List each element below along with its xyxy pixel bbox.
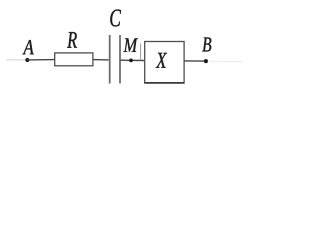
node M label	[123, 38, 137, 51]
box X	[145, 42, 184, 83]
wire from node A to resistor R	[27, 59, 54, 61]
node B label	[202, 38, 211, 52]
wire faint lead-out right of node B	[209, 60, 242, 62]
resistor R	[55, 53, 93, 66]
wire faint lead-in left of node A	[6, 59, 26, 61]
node M	[129, 59, 133, 63]
node A	[25, 58, 29, 62]
wire from box X to node B	[184, 60, 204, 62]
wire from capacitor C to box X	[120, 59, 144, 61]
box X label	[156, 53, 167, 68]
node A label	[23, 40, 34, 54]
resistor R label	[67, 32, 77, 48]
capacitor C right plate	[119, 35, 121, 83]
capacitor C left plate	[109, 35, 111, 84]
capacitor C label	[110, 10, 121, 27]
box X bottom edge (darker)	[144, 82, 184, 84]
node B	[204, 59, 208, 63]
wire from resistor R to capacitor C	[93, 59, 109, 61]
faint vertical stub line left of box X	[140, 44, 142, 61]
